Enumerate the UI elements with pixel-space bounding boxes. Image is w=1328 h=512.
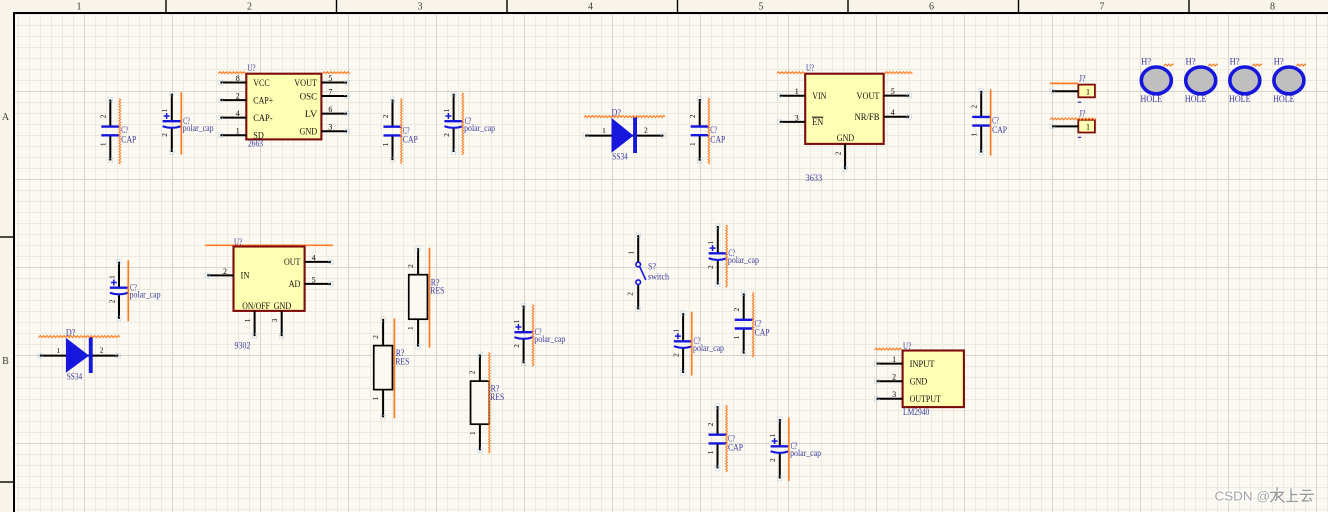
svg-text:RES: RES	[430, 286, 444, 296]
svg-text:2: 2	[108, 299, 116, 303]
svg-text:7: 7	[1100, 2, 1105, 13]
svg-text:CAP: CAP	[992, 125, 1007, 135]
svg-text:1: 1	[372, 396, 380, 400]
svg-text:3: 3	[271, 318, 279, 322]
svg-text:GND: GND	[300, 128, 318, 138]
svg-text:1: 1	[1086, 88, 1090, 97]
svg-text:S?: S?	[648, 261, 656, 271]
svg-text:U?: U?	[248, 63, 256, 73]
svg-text:SS34: SS34	[612, 152, 628, 162]
svg-text:2: 2	[644, 125, 648, 134]
svg-text:3: 3	[418, 2, 423, 13]
svg-text:D?: D?	[612, 107, 621, 117]
svg-text:6: 6	[328, 105, 332, 114]
svg-text:1: 1	[707, 240, 715, 244]
svg-text:J?: J?	[1079, 109, 1086, 119]
svg-text:3: 3	[795, 113, 799, 122]
svg-text:2: 2	[247, 2, 252, 13]
svg-text:VOUT: VOUT	[294, 79, 317, 89]
svg-text:5: 5	[328, 74, 332, 83]
svg-text:2: 2	[236, 92, 240, 101]
svg-text:1: 1	[469, 431, 477, 435]
svg-text:HOLE: HOLE	[1229, 94, 1251, 104]
svg-text:1: 1	[108, 275, 116, 279]
svg-text:1: 1	[100, 142, 108, 146]
svg-text:CAP: CAP	[710, 134, 725, 144]
svg-text:1: 1	[244, 318, 252, 322]
svg-text:2: 2	[733, 307, 741, 311]
svg-text:1: 1	[628, 251, 636, 255]
svg-text:2: 2	[469, 370, 477, 374]
svg-text:2: 2	[769, 458, 777, 462]
svg-text:polar_cap: polar_cap	[464, 123, 495, 133]
svg-text:J?: J?	[1079, 74, 1086, 84]
svg-text:polar_cap: polar_cap	[130, 290, 161, 300]
svg-text:5: 5	[312, 275, 316, 284]
svg-text:1: 1	[689, 142, 697, 146]
svg-text:1: 1	[602, 126, 606, 135]
svg-text:1: 1	[443, 108, 451, 112]
svg-text:7: 7	[328, 87, 332, 96]
svg-text:2: 2	[100, 114, 108, 118]
svg-text:CAP: CAP	[403, 135, 418, 145]
svg-text:SS34: SS34	[67, 372, 83, 382]
svg-text:switch: switch	[648, 272, 669, 282]
svg-text:2: 2	[627, 292, 635, 296]
svg-text:1: 1	[733, 335, 741, 339]
svg-text:GND: GND	[274, 302, 292, 312]
svg-text:RES: RES	[490, 392, 504, 402]
svg-text:HOLE: HOLE	[1273, 94, 1295, 104]
svg-text:polar_cap: polar_cap	[183, 123, 214, 133]
svg-text:U?: U?	[903, 341, 911, 351]
svg-text:2: 2	[971, 104, 979, 108]
svg-text:ON/OFF: ON/OFF	[242, 302, 270, 312]
svg-text:2: 2	[835, 151, 843, 155]
svg-text:4: 4	[588, 2, 593, 13]
svg-text:H?: H?	[1274, 57, 1284, 67]
svg-text:polar_cap: polar_cap	[534, 334, 565, 344]
svg-text:4: 4	[312, 253, 316, 262]
svg-text:1: 1	[795, 87, 799, 96]
svg-text:INPUT: INPUT	[910, 360, 935, 370]
svg-text:RES: RES	[395, 356, 409, 366]
svg-text:3633: 3633	[806, 173, 823, 183]
svg-text:2: 2	[892, 373, 896, 382]
svg-text:1: 1	[769, 433, 777, 437]
svg-text:1: 1	[513, 319, 521, 323]
svg-text:9302: 9302	[235, 340, 251, 350]
svg-text:CAP-: CAP-	[253, 114, 272, 124]
svg-text:D?: D?	[66, 327, 75, 337]
svg-text:8: 8	[1270, 2, 1275, 13]
svg-text:2: 2	[707, 265, 715, 269]
svg-text:3: 3	[892, 390, 896, 399]
svg-text:1: 1	[971, 132, 979, 136]
svg-text:HOLE: HOLE	[1141, 94, 1163, 104]
svg-text:1: 1	[161, 108, 169, 112]
svg-text:2: 2	[161, 133, 169, 137]
svg-text:H?: H?	[1186, 57, 1196, 67]
svg-text:1: 1	[1086, 123, 1090, 132]
svg-text:HOLE: HOLE	[1185, 94, 1207, 104]
svg-text:polar_cap: polar_cap	[790, 448, 821, 458]
svg-text:NR/FB: NR/FB	[855, 113, 880, 123]
svg-text:5: 5	[891, 87, 895, 96]
svg-text:1: 1	[707, 450, 715, 454]
svg-text:1: 1	[892, 355, 896, 364]
svg-text:8: 8	[236, 74, 240, 83]
svg-text:CAP: CAP	[755, 328, 770, 338]
svg-text:2: 2	[707, 422, 715, 426]
svg-text:2: 2	[689, 114, 697, 118]
svg-text:OSC: OSC	[300, 92, 318, 102]
svg-text:GND: GND	[837, 134, 855, 144]
svg-text:VCC: VCC	[253, 79, 269, 89]
svg-text:2: 2	[407, 264, 415, 268]
svg-text:CSDN @: CSDN @	[1215, 489, 1271, 504]
svg-text:2: 2	[382, 114, 390, 118]
svg-text:LM2940: LM2940	[903, 407, 930, 417]
svg-text:3: 3	[328, 123, 332, 132]
svg-text:2: 2	[673, 353, 681, 357]
svg-text:VIN: VIN	[812, 92, 826, 102]
svg-text:2: 2	[100, 345, 104, 354]
svg-text:2: 2	[223, 267, 227, 276]
svg-text:GND: GND	[910, 378, 928, 388]
svg-text:U?: U?	[806, 63, 814, 73]
svg-text:6: 6	[929, 2, 934, 13]
svg-text:B: B	[2, 356, 9, 367]
svg-text:SD: SD	[253, 132, 264, 142]
svg-text:EN: EN	[812, 118, 823, 128]
svg-text:4: 4	[891, 108, 895, 117]
svg-text:H?: H?	[1230, 57, 1240, 67]
svg-text:1: 1	[407, 326, 415, 330]
svg-text:5: 5	[759, 2, 764, 13]
svg-text:1: 1	[57, 346, 61, 355]
svg-text:CAP: CAP	[121, 135, 136, 145]
svg-text:LV: LV	[305, 110, 318, 120]
svg-text:1: 1	[673, 328, 681, 332]
svg-text:AD: AD	[289, 280, 301, 290]
svg-text:CAP: CAP	[728, 443, 743, 453]
svg-text:H?: H?	[1141, 57, 1151, 67]
svg-text:IN: IN	[241, 272, 250, 282]
svg-text:polar_cap: polar_cap	[728, 255, 759, 265]
svg-text:CAP+: CAP+	[253, 96, 273, 106]
svg-text:OUTPUT: OUTPUT	[910, 395, 942, 405]
svg-text:1: 1	[382, 142, 390, 146]
svg-text:2: 2	[372, 335, 380, 339]
svg-text:VOUT: VOUT	[857, 92, 880, 102]
svg-text:U?: U?	[234, 237, 242, 247]
svg-text:OUT: OUT	[284, 258, 301, 268]
svg-text:1: 1	[236, 127, 240, 136]
svg-text:2: 2	[513, 344, 521, 348]
svg-text:4: 4	[236, 109, 240, 118]
svg-text:polar_cap: polar_cap	[693, 343, 724, 353]
svg-text:2: 2	[443, 133, 451, 137]
svg-text:A: A	[2, 112, 10, 123]
svg-text:1: 1	[77, 2, 82, 13]
